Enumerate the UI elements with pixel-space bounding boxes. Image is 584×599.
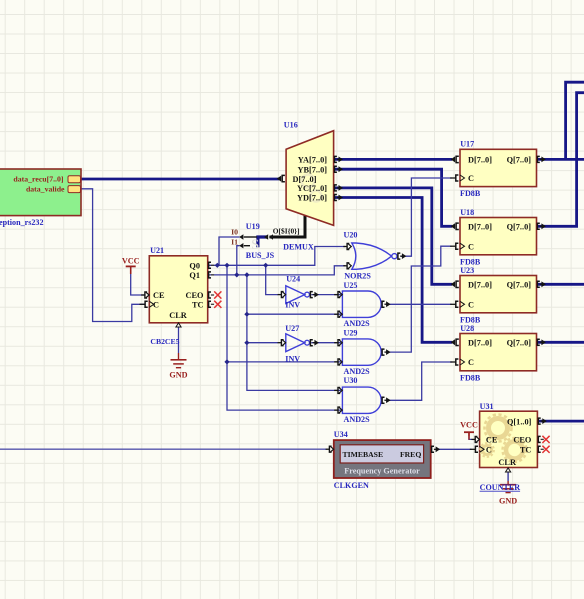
svg-text:C: C [468, 242, 474, 251]
svg-text:CB2CE5: CB2CE5 [150, 337, 179, 346]
svg-text:U28: U28 [460, 324, 474, 333]
svg-text:Q[7..0]: Q[7..0] [507, 156, 532, 165]
svg-text:VCC: VCC [122, 257, 140, 266]
svg-text:C: C [153, 301, 159, 310]
svg-text:C: C [486, 446, 492, 455]
svg-text:TC: TC [192, 301, 204, 310]
svg-text:U16: U16 [284, 120, 298, 129]
svg-text:U34: U34 [334, 430, 348, 439]
svg-text:TC: TC [520, 446, 532, 455]
svg-text:data_recu[7..0]: data_recu[7..0] [13, 175, 63, 184]
svg-text:CE: CE [153, 291, 165, 300]
svg-text:U19: U19 [246, 222, 260, 231]
svg-text:U21: U21 [150, 246, 164, 255]
svg-text:AND2S: AND2S [344, 367, 371, 376]
svg-text:D[7..0]: D[7..0] [468, 156, 492, 165]
svg-text:AND2S: AND2S [344, 415, 371, 424]
svg-text:Frequency Generator: Frequency Generator [344, 467, 420, 476]
svg-text:U31: U31 [480, 402, 494, 411]
svg-text:INV: INV [285, 300, 300, 309]
svg-text:U25: U25 [344, 281, 358, 290]
svg-text:Q[7..0]: Q[7..0] [507, 339, 532, 348]
svg-text:eption_rs232: eption_rs232 [0, 218, 44, 227]
svg-text:O[$I{0}]: O[$I{0}] [273, 227, 300, 236]
svg-text:U17: U17 [460, 140, 474, 149]
svg-text:U27: U27 [285, 324, 299, 333]
svg-text:CLR: CLR [169, 311, 188, 320]
svg-text:D[7..0]: D[7..0] [468, 281, 492, 290]
svg-text:DEMUX: DEMUX [283, 243, 314, 252]
svg-text:Q[7..0]: Q[7..0] [507, 223, 532, 232]
svg-text:CLR: CLR [498, 458, 517, 467]
svg-text:GND: GND [169, 371, 187, 380]
svg-text:AND2S: AND2S [344, 319, 371, 328]
svg-text:U20: U20 [344, 230, 358, 239]
svg-text:U18: U18 [460, 208, 474, 217]
svg-text:U29: U29 [344, 328, 358, 337]
svg-text:C: C [468, 301, 474, 310]
svg-text:YB[7..0]: YB[7..0] [298, 165, 328, 174]
svg-text:D[7..0]: D[7..0] [293, 175, 317, 184]
svg-text:INV: INV [285, 354, 300, 363]
svg-text:YA[7..0]: YA[7..0] [298, 156, 327, 165]
svg-text:TIMEBASE: TIMEBASE [343, 450, 384, 459]
svg-text:CEO: CEO [186, 291, 205, 300]
svg-text:Q1: Q1 [189, 271, 200, 280]
svg-text:GND: GND [499, 497, 517, 506]
svg-text:C: C [468, 358, 474, 367]
svg-text:C: C [468, 174, 474, 183]
svg-text:data_valide: data_valide [26, 185, 65, 194]
svg-text:COUNTER: COUNTER [480, 483, 521, 492]
svg-text:BUS_JS: BUS_JS [246, 251, 275, 260]
svg-text:U24: U24 [286, 275, 300, 284]
svg-text:Q[1..0]: Q[1..0] [507, 417, 532, 426]
svg-text:FD8B: FD8B [460, 373, 481, 382]
svg-text:D[7..0]: D[7..0] [468, 223, 492, 232]
svg-text:CEO: CEO [513, 436, 532, 445]
svg-text:YD[7..0]: YD[7..0] [297, 194, 327, 203]
svg-text:Q0: Q0 [189, 262, 200, 271]
svg-text:VCC: VCC [460, 421, 478, 430]
svg-text:U30: U30 [344, 376, 358, 385]
svg-text:FD8B: FD8B [460, 189, 481, 198]
svg-text:U23: U23 [460, 266, 474, 275]
svg-text:NOR2S: NOR2S [344, 272, 371, 281]
svg-text:CLKGEN: CLKGEN [334, 481, 369, 490]
svg-text:CE: CE [486, 436, 498, 445]
svg-text:I0: I0 [231, 228, 238, 237]
svg-text:I1: I1 [231, 237, 238, 246]
svg-text:Q[7..0]: Q[7..0] [507, 281, 532, 290]
svg-text:FREQ: FREQ [400, 450, 421, 459]
svg-text:D[7..0]: D[7..0] [468, 339, 492, 348]
svg-text:YC[7..0]: YC[7..0] [297, 184, 327, 193]
